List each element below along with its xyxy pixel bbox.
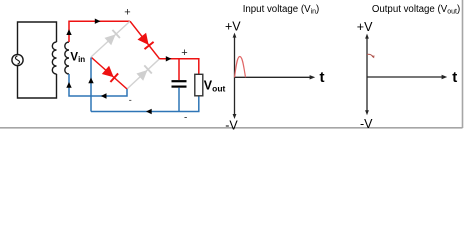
wire right vertex to output + (red) [160,59,199,80]
input graph horizontal axis [235,75,316,79]
svg-text:-: - [129,95,132,105]
wire secondary top lead (red) [69,21,130,42]
svg-text:+V: +V [225,20,241,34]
current arrow right on top red wire [95,19,101,24]
bottom slide border [0,127,463,129]
transformer primary coil L1 [52,42,56,74]
svg-text:t: t [452,69,457,86]
diode D1 top-right (red, conducting) [130,21,160,59]
current arrow up on secondary top lead [66,29,71,35]
current arrow left on mid blue wire [101,93,107,98]
wire bottom vertex to secondary bottom (blue) [69,74,127,96]
output residual ripple mark [367,54,374,57]
output graph vertical axis [365,34,369,116]
diode D2 top-left (gray, off) [91,21,130,57]
svg-text:-V: -V [360,117,373,131]
svg-text:+: + [181,47,187,59]
current arrow up on secondary bottom lead [66,82,71,88]
current arrow left on bottom rail [146,109,152,114]
svg-text:Input voltage (Vin): Input voltage (Vin) [243,4,320,16]
output graph horizontal axis [367,75,447,79]
transformer secondary coil L2 [65,42,69,74]
svg-text:-V: -V [225,118,238,132]
wire capacitor bottom lead (blue) [178,88,180,112]
wire left vertex to bottom rail (blue) [90,58,92,112]
svg-text:+: + [124,7,130,19]
current arrow right on output wire [166,56,172,61]
diode D3 bottom-left (red, conducting) [92,58,128,90]
wire bottom rail (blue) [91,96,199,112]
svg-text:-: - [184,113,187,124]
AC source V1 [12,54,23,65]
capacitor C1 [172,81,187,86]
svg-text:t: t [320,69,325,86]
diode D4 bottom-right (gray, off) [127,59,160,89]
svg-text:Output voltage (Vout): Output voltage (Vout) [372,4,460,16]
input graph vertical axis [233,33,237,119]
input half-sine pulse [235,57,246,78]
resistor R1 (load) [195,74,203,96]
primary loop wire [18,22,57,98]
right slide border [462,0,464,128]
current arrow up on left vertex wire [88,78,93,84]
svg-text:+V: +V [357,20,373,34]
